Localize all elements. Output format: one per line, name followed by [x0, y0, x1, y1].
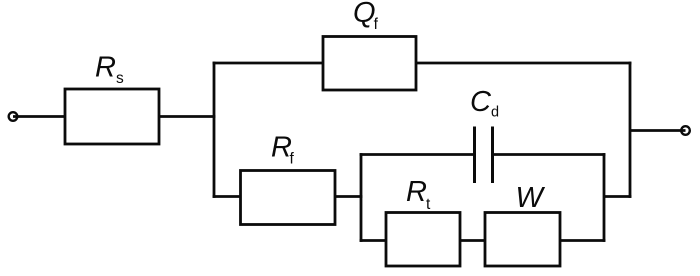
Warburg W	[485, 213, 560, 267]
svg-text:Qf: Qf	[353, 0, 379, 33]
wire loop exit	[604, 195, 631, 198]
CPE Qf	[323, 37, 416, 91]
wire to right terminal	[630, 129, 686, 132]
wire loop top left segment	[360, 153, 473, 156]
resistor Rf	[241, 171, 336, 225]
wire loop bottom to Rt	[360, 239, 387, 242]
terminal left	[9, 112, 18, 121]
svg-text:Rf: Rf	[271, 132, 294, 168]
wire bottom branch node A to Rf	[213, 195, 242, 198]
terminal right	[681, 126, 690, 135]
wire Rs to node A	[159, 115, 215, 118]
capacitor Cd	[475, 127, 493, 184]
resistor Rt	[386, 213, 460, 267]
wire left terminal to Rs	[13, 115, 66, 118]
wire Rf to parallel loop	[335, 195, 362, 198]
resistor Rs	[65, 89, 159, 144]
wire top branch left	[213, 62, 324, 65]
wire right vertical	[629, 62, 632, 198]
wire Rt to W	[460, 239, 486, 242]
wire loop left vertical	[360, 153, 363, 242]
wire W to loop right	[560, 239, 605, 242]
wire top branch right	[415, 62, 631, 65]
svg-text:W: W	[516, 182, 546, 214]
wire loop right vertical	[603, 153, 606, 242]
node A vertical wire	[213, 62, 216, 198]
wire loop top right segment	[494, 153, 605, 156]
